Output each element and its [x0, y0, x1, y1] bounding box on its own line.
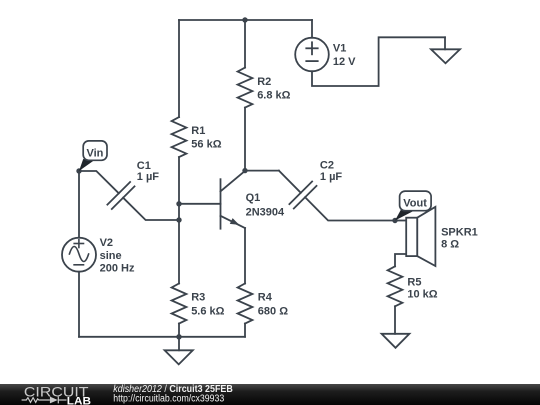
wire emitter down to R4: [244, 228, 246, 284]
svg-text:Vout: Vout: [403, 198, 427, 210]
label C2 value: [320, 159, 343, 183]
svg-text:R5: R5: [407, 276, 421, 288]
wire R1 top stem: [178, 20, 180, 117]
svg-text:V2: V2: [100, 237, 113, 249]
wire Vout node to speaker: [395, 220, 406, 222]
svg-text:680 Ω: 680 Ω: [258, 306, 288, 318]
svg-text:C2: C2: [320, 159, 334, 171]
junction node collector: [242, 168, 247, 173]
label R4 value: [258, 292, 288, 318]
capacitor C2: [279, 171, 395, 221]
svg-text:8 Ω: 8 Ω: [441, 239, 459, 251]
junction node top rail / R2: [242, 17, 247, 22]
node Vout: [392, 218, 397, 223]
wire base node to C1 node: [178, 204, 180, 220]
wire R5 bottom stem: [394, 306, 396, 334]
resistor R1: [172, 117, 187, 157]
footer bar: [0, 384, 540, 405]
wire bottom rail: [79, 336, 245, 338]
svg-text:2N3904: 2N3904: [246, 207, 285, 219]
junction node ground rail: [176, 334, 181, 339]
junction node base: [176, 201, 181, 206]
wire R2 top stem: [244, 20, 246, 68]
wire V2 bottom stem: [78, 272, 80, 337]
ground bottom middle: [165, 337, 193, 365]
svg-text:56 kΩ: 56 kΩ: [191, 138, 221, 150]
svg-text:R3: R3: [191, 292, 205, 304]
svg-text:V1: V1: [333, 43, 346, 55]
svg-text:5.6 kΩ: 5.6 kΩ: [191, 306, 224, 318]
resistor R3: [172, 284, 187, 324]
node Vin: [76, 168, 81, 173]
svg-text:R1: R1: [191, 125, 205, 137]
svg-text:200 Hz: 200 Hz: [100, 263, 135, 275]
svg-text:6.8 kΩ: 6.8 kΩ: [257, 89, 290, 101]
wire collector node to C2: [245, 170, 279, 172]
wire speaker bottom to R5: [395, 254, 406, 266]
label C1 value: [137, 160, 160, 183]
wire R1 bottom to base node: [178, 157, 180, 204]
svg-text:sine: sine: [100, 250, 122, 262]
label Q1 value: [246, 192, 285, 218]
label V2 value: [100, 237, 135, 275]
junction node C1 out: [176, 217, 181, 222]
transistor Q1: [221, 171, 246, 229]
svg-text:R2: R2: [257, 76, 271, 88]
wire R2 bottom to collector node: [244, 108, 246, 171]
label R5 value: [407, 276, 437, 300]
wire V1 top stem: [311, 20, 313, 38]
label V1 value: [333, 43, 356, 68]
wire top rail: [179, 19, 312, 21]
wire V1 bottom to top ground: [312, 37, 445, 86]
capacitor C1: [79, 171, 179, 220]
voltage source V2: [62, 238, 96, 272]
resistor R4: [238, 284, 253, 324]
label R2 value: [257, 76, 290, 101]
svg-text:LAB: LAB: [67, 395, 92, 405]
voltage source V1: [295, 38, 329, 72]
svg-text:http://circuitlab.com/cx39933: http://circuitlab.com/cx39933: [113, 394, 224, 405]
flag Vin: [79, 141, 107, 171]
resistor R5: [388, 266, 403, 306]
label SPKR1 value: [441, 226, 478, 250]
wire Vin node to V2: [78, 171, 80, 238]
svg-text:1 µF: 1 µF: [320, 171, 343, 183]
svg-text:Vin: Vin: [86, 147, 103, 159]
ground bottom right: [382, 334, 410, 348]
ground top right: [431, 37, 460, 63]
footer logo wire-resistor-diode glyph: [22, 397, 67, 404]
svg-text:R4: R4: [258, 292, 273, 304]
svg-text:10 kΩ: 10 kΩ: [407, 289, 437, 301]
label R1 value: [191, 125, 221, 150]
flag Vout: [395, 191, 431, 220]
wire C1 node down to R3: [178, 220, 180, 284]
svg-text:Q1: Q1: [246, 192, 261, 204]
svg-text:12 V: 12 V: [333, 56, 356, 68]
wire R3 bottom: [178, 324, 180, 337]
speaker SPKR1: [406, 207, 435, 266]
svg-text:SPKR1: SPKR1: [441, 226, 478, 238]
wire R4 bottom: [244, 324, 246, 337]
wire base: [179, 203, 221, 205]
svg-text:1 µF: 1 µF: [137, 171, 160, 183]
resistor R2: [238, 68, 253, 108]
label R3 value: [191, 292, 224, 318]
